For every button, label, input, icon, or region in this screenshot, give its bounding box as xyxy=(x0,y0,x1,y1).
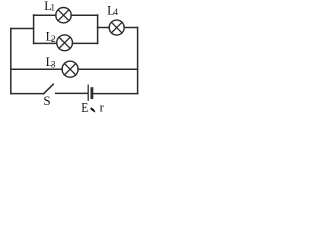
wire right junction vertical (node B) xyxy=(97,15,99,43)
wire L2 branch left xyxy=(34,42,57,44)
svg-text:S: S xyxy=(43,93,50,108)
wire L3 branch left xyxy=(11,68,62,70)
wire left rail xyxy=(10,29,12,94)
wire L3 branch right xyxy=(78,68,138,70)
wire L2 branch right xyxy=(72,42,97,44)
wire top-left stub xyxy=(11,28,34,30)
ideographic comma xyxy=(91,108,95,112)
wire battery to right corner xyxy=(93,93,137,95)
svg-text:E: E xyxy=(81,100,88,115)
label L4 xyxy=(107,3,118,17)
svg-text:1: 1 xyxy=(50,3,55,13)
wire left junction vertical (node A) xyxy=(33,15,35,43)
svg-text:2: 2 xyxy=(51,35,56,45)
svg-text:3: 3 xyxy=(51,61,56,71)
wire L1 branch right xyxy=(71,14,98,16)
wire L1 branch left xyxy=(34,14,56,16)
wire L4 to right corner xyxy=(124,27,138,29)
wire right rail xyxy=(137,28,139,94)
lamp L1 xyxy=(56,8,71,23)
svg-text:r: r xyxy=(100,101,105,115)
wire bottom left xyxy=(11,93,44,95)
label L2 xyxy=(46,30,56,45)
lamp L4 xyxy=(109,20,124,35)
lamp L3 xyxy=(62,61,78,77)
label L3 xyxy=(46,55,56,71)
switch S blade xyxy=(44,84,54,94)
svg-text:4: 4 xyxy=(114,7,119,17)
battery E plate short (thick) xyxy=(91,89,94,98)
label L1 xyxy=(44,0,55,13)
battery E plate long xyxy=(87,85,89,100)
wire to L4 xyxy=(98,27,110,29)
lamp L2 xyxy=(57,35,73,51)
wire switch to battery xyxy=(56,92,88,94)
